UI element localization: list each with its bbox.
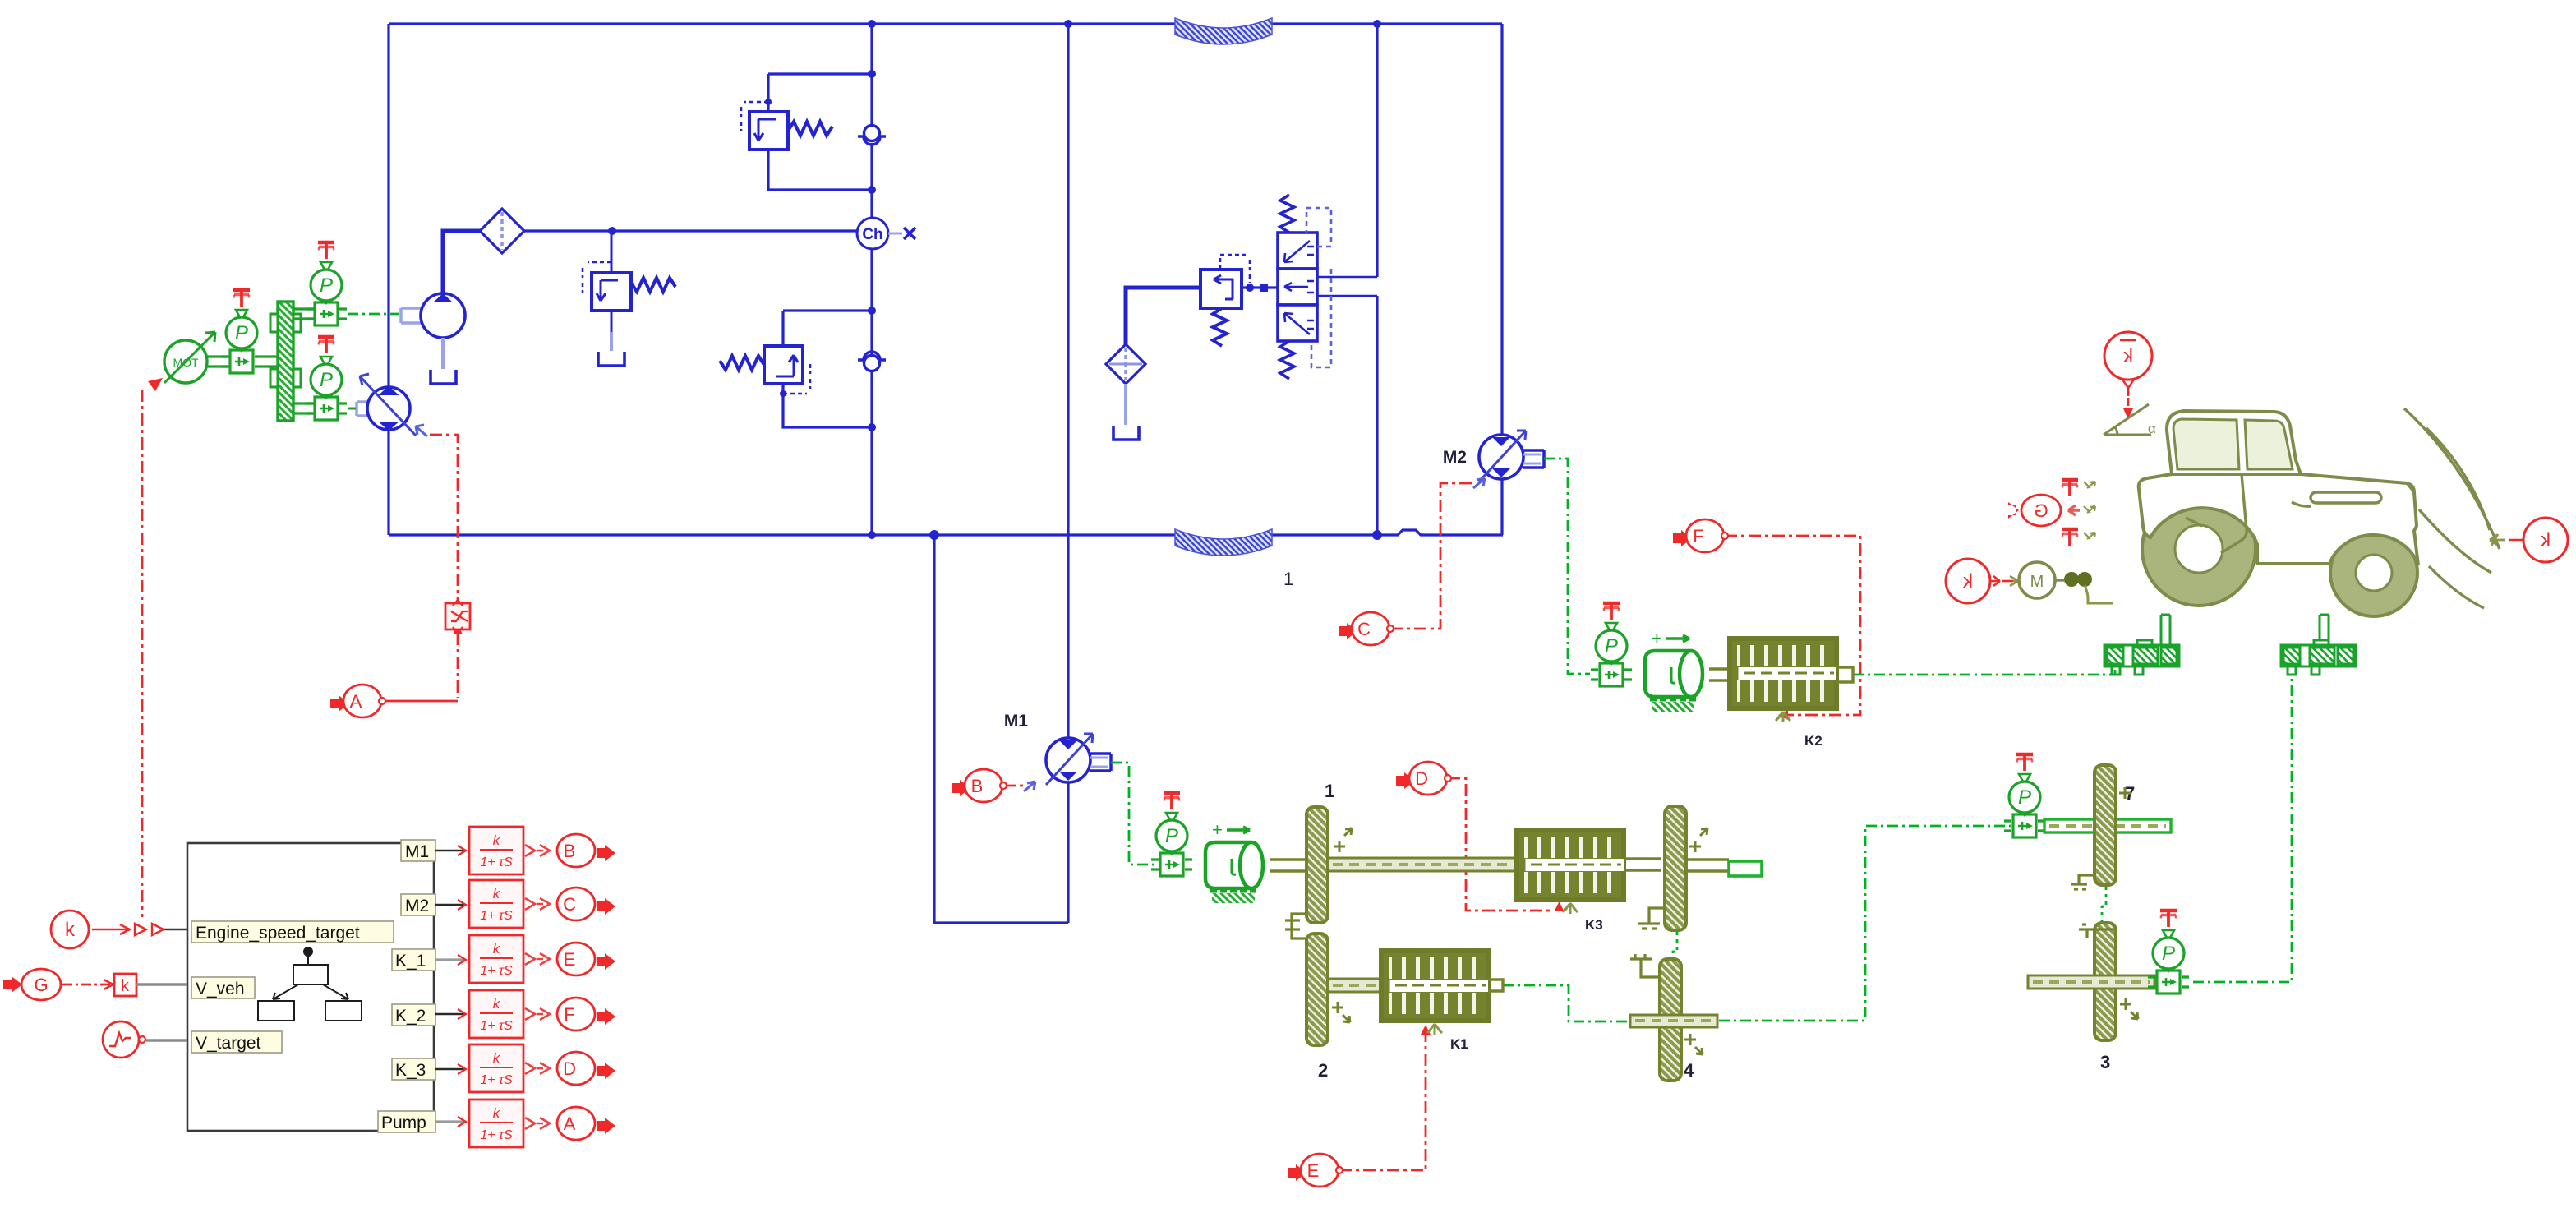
speed node M	[2010, 562, 2113, 603]
wire valve V1 to right verticals	[1317, 276, 1377, 278]
shaft gearbox to lower branch box	[293, 403, 315, 413]
gear 3	[2094, 923, 2116, 1040]
input port labels	[191, 921, 394, 1053]
tractor cab window left	[2173, 419, 2239, 469]
svg-text:k: k	[121, 977, 130, 995]
transfer function TF4 (K_2->F)	[469, 990, 523, 1038]
svg-text:M2: M2	[405, 897, 429, 915]
shaft K1 output stub	[1488, 980, 1503, 991]
wires block outputs to transfer functions	[435, 851, 464, 1069]
wire pump swash command from A	[430, 435, 458, 600]
wire mid vertical x=1300	[1067, 24, 1069, 535]
tractor door edge	[2221, 474, 2247, 553]
wire R2 bottom	[783, 384, 872, 427]
clutch K1	[1381, 951, 1488, 1035]
wire bottom rail left of hose	[389, 533, 1175, 536]
slope angle symbol	[2104, 404, 2151, 435]
hose break bottom	[1175, 529, 1272, 556]
sensor P S2 (pump shaft lower)	[306, 337, 347, 420]
node Ch accumulator	[857, 218, 915, 249]
svg-text:k: k	[65, 919, 76, 941]
engine MOT	[164, 332, 215, 383]
tag F out	[525, 1008, 550, 1020]
svg-text:K2: K2	[1804, 733, 1823, 749]
wire right mid vertical x=1676 upper	[1376, 24, 1378, 277]
svg-text:K_2: K_2	[395, 1007, 426, 1026]
wire tag C to M2	[1390, 483, 1475, 629]
saturation block (pump command)	[445, 600, 470, 633]
shaft MOT to torque box	[207, 357, 230, 367]
ground bracket gear 4 (top)	[1630, 954, 1660, 977]
svg-text:F: F	[564, 1004, 574, 1025]
shaft gearA output stub	[1686, 860, 1729, 871]
gearbox splitter bar	[270, 302, 301, 421]
wire R1 top branch	[768, 72, 872, 75]
svg-text:1+ τS: 1+ τS	[480, 1073, 513, 1087]
svg-text:G: G	[34, 975, 48, 995]
svg-text:M1: M1	[405, 842, 429, 861]
svg-text:A: A	[350, 691, 362, 712]
shaft gear3	[2028, 975, 2154, 989]
svg-text:1+ τS: 1+ τS	[480, 964, 513, 978]
controller block frame	[187, 843, 434, 1131]
tag C out	[525, 898, 550, 910]
inertia I1	[1205, 819, 1263, 903]
wire top rail right of hose	[1272, 22, 1502, 25]
svg-text:Ch: Ch	[862, 226, 882, 243]
svg-text:V_target: V_target	[196, 1034, 261, 1053]
wire mid vertical x=1061 segments	[870, 24, 873, 125]
tractor body shell	[2139, 474, 2418, 565]
source V_target signal generator	[103, 1021, 187, 1058]
wire charge line filter to Ch	[524, 229, 857, 232]
sensor P S7	[2148, 911, 2189, 994]
filter F2 (flushing)	[1106, 344, 1145, 440]
svg-text:2: 2	[1318, 1060, 1328, 1081]
wire elastic link gearA-gear4	[1673, 932, 1677, 958]
tractor cab window right	[2245, 420, 2293, 469]
shaft K2 output	[1836, 667, 1853, 682]
tag D out	[525, 1063, 550, 1074]
source k (engine speed setpoint)	[51, 911, 187, 948]
tractor front wheel	[2330, 529, 2417, 616]
wire top rail left of hose	[389, 22, 1175, 25]
charge pump P2	[401, 293, 465, 369]
svg-text:1+ τS: 1+ τS	[480, 1128, 513, 1142]
tag E out	[525, 953, 550, 965]
sensor P S1 (pump shaft upper)	[306, 242, 347, 325]
svg-text:M1: M1	[1004, 712, 1028, 731]
svg-text:1+ τS: 1+ τS	[480, 909, 513, 923]
svg-text:D: D	[563, 1058, 576, 1079]
svg-text:C: C	[563, 894, 576, 915]
svg-text:M2: M2	[1443, 448, 1467, 467]
transfer function TF2 (M2->C)	[469, 880, 523, 928]
clutch K2	[1730, 639, 1836, 722]
gear 2	[1306, 934, 1328, 1045]
wire G sources to k gain	[62, 984, 112, 986]
svg-text:V_veh: V_veh	[196, 980, 245, 998]
svg-text:4: 4	[1684, 1060, 1694, 1081]
svg-text:1: 1	[1325, 781, 1334, 801]
svg-text:K1: K1	[1450, 1036, 1468, 1052]
check valve C1	[858, 126, 886, 145]
relief valve R1 (top cross relief)	[741, 102, 832, 150]
wire M1 loop	[934, 535, 1068, 923]
right wheel hub	[2281, 615, 2356, 675]
wire K2 output to left hub	[1853, 667, 2115, 675]
tag k (to vehicle speed motor M)	[1946, 559, 2013, 603]
gear A (output of K3)	[1665, 806, 1686, 930]
relief valve R2 (bottom cross relief, mirrored)	[720, 346, 810, 394]
shaft gearbox to upper branch box	[293, 309, 315, 319]
wire bottom rail right of hose, with hop	[1272, 530, 1503, 535]
svg-text:E: E	[1307, 1160, 1320, 1181]
tag E in	[1288, 1164, 1306, 1181]
wire right mid vertical x=1676 lower	[1376, 296, 1378, 535]
svg-text:k: k	[2540, 529, 2551, 551]
wire left vertical below pump P1	[387, 431, 389, 535]
transmitter icons near G	[2062, 480, 2078, 496]
gear 7	[2094, 765, 2116, 885]
shaft K3 to gearA	[1624, 859, 1661, 870]
wire flushing filter to relief R3	[1126, 288, 1200, 348]
inertia I2	[1645, 628, 1703, 712]
tag B out	[525, 845, 550, 856]
tag C in	[1339, 623, 1357, 639]
gear 1	[1306, 807, 1328, 923]
relief valve R0 (charge relief)	[583, 231, 675, 366]
transfer function TF1 (M1->B)	[469, 827, 523, 874]
shaft gear7	[2044, 819, 2171, 832]
tag k (vehicle speed pickup right)	[2490, 518, 2568, 562]
wire charge pump top line	[443, 231, 480, 293]
motion arcs behind tractor	[2404, 408, 2500, 608]
sensor P S6	[2004, 754, 2045, 837]
svg-text:K3: K3	[1585, 917, 1603, 933]
svg-text:M: M	[2030, 573, 2044, 591]
controller internal tree	[258, 947, 362, 1021]
source G (vehicle speed feedback)	[3, 969, 187, 1000]
wire tag D to K3	[1448, 778, 1553, 911]
variable displacement pump P1	[357, 374, 427, 436]
wire K1 output to gear 4 shaft	[1503, 985, 1629, 1021]
svg-text:D: D	[1415, 768, 1428, 789]
wire R2 top branch	[783, 309, 872, 311]
tag A out	[525, 1118, 550, 1129]
low pressure relief valve R3	[1200, 255, 1268, 346]
svg-text:F: F	[1693, 526, 1703, 546]
sensor P S3 (engine shaft)	[221, 290, 262, 373]
motor M2	[1443, 431, 1544, 488]
svg-text:A: A	[564, 1113, 576, 1134]
wire R3 to valve V1	[1242, 286, 1278, 288]
svg-text:3: 3	[2100, 1052, 2110, 1072]
wire inclinometer to slope	[2127, 386, 2130, 399]
svg-text:k: k	[2122, 345, 2133, 367]
svg-text:K_1: K_1	[395, 952, 426, 971]
svg-text:k: k	[1962, 570, 1973, 592]
tractor cab	[2167, 411, 2301, 474]
wire elastic link gear7-gear3	[2102, 887, 2106, 922]
wire M1 to gear train sensor	[1111, 763, 1159, 865]
ground bracket gear 7	[2071, 875, 2093, 889]
left wheel hub	[2104, 615, 2179, 675]
svg-text:C: C	[1357, 619, 1371, 639]
wire tag E to K1	[1339, 1031, 1426, 1170]
svg-text:1+ τS: 1+ τS	[480, 855, 513, 869]
svg-text:G: G	[2034, 500, 2048, 521]
filter F1	[480, 209, 524, 253]
tag A in	[330, 695, 349, 712]
tag B in	[952, 780, 970, 796]
wire gear4 output to gear7 sensor	[1719, 826, 2011, 1021]
wire left vertical above pump P1	[387, 24, 389, 386]
output port labels	[378, 840, 435, 1132]
wire green shaft link S2 to variable pump	[348, 408, 356, 410]
shaft gear1 to K3	[1328, 858, 1518, 871]
wire tag A to saturation	[382, 700, 458, 703]
svg-text:E: E	[564, 949, 576, 970]
receive tags in plant	[330, 519, 1728, 1187]
tractor rear wheel	[2142, 492, 2256, 606]
red arrowheads on signal lines	[148, 378, 2133, 1035]
check valve C2	[858, 352, 886, 371]
svg-text:Engine_speed_target: Engine_speed_target	[196, 924, 360, 943]
wire R1 bottom to mid line	[768, 150, 872, 190]
tag D in	[1396, 772, 1415, 789]
junction dots	[608, 20, 1382, 540]
svg-text:B: B	[971, 776, 984, 796]
inclinometer tag k (top)	[2104, 332, 2152, 408]
ground bracket gearA	[1638, 908, 1663, 929]
shaft I1 to gear1	[1270, 860, 1308, 871]
tag F in	[1673, 530, 1692, 546]
transmit tags B C E F D A	[525, 834, 615, 1140]
tank under charge pump	[431, 370, 456, 384]
svg-text:Pump: Pump	[381, 1113, 426, 1132]
sensor P S4	[1591, 603, 1632, 686]
directional flushing valve V1	[1278, 195, 1331, 379]
ground bracket gear 3 (top)	[2079, 924, 2117, 938]
shaft through gear 4	[1630, 1015, 1717, 1027]
tractor front notch	[2407, 483, 2414, 492]
wire M2 to K2 input sensor	[1544, 459, 1590, 674]
transfer function TF3 (K_1->E)	[469, 935, 523, 983]
hose break top	[1175, 18, 1272, 44]
clutch K3	[1517, 830, 1624, 914]
motor M1	[1004, 712, 1111, 791]
wire tag F to K2	[1725, 536, 1860, 715]
wire tag B to M1	[1003, 785, 1024, 787]
coupling spring gear1-gear2	[1285, 914, 1306, 938]
svg-text:1+ τS: 1+ τS	[480, 1019, 513, 1033]
wire M2 bottom to bottom rail	[1500, 478, 1503, 535]
gear 4	[1660, 959, 1681, 1081]
shaft I2 to K2	[1709, 669, 1731, 680]
tractor side slot	[2311, 492, 2381, 503]
svg-text:α: α	[2148, 421, 2156, 436]
wire gear3 sensor to right hub	[2193, 677, 2292, 982]
transfer function TF6 (Pump->A)	[469, 1100, 523, 1147]
wire green shaft link S1 to charge pump	[348, 313, 399, 316]
wire engine speed command (vertical)	[141, 390, 144, 917]
sensor P S5	[1151, 793, 1192, 876]
transfer function TF5 (K_3->D)	[469, 1044, 523, 1092]
svg-text:K_3: K_3	[395, 1061, 426, 1080]
shaft gear2 to K1	[1328, 979, 1384, 992]
tag G (slope output)	[2008, 495, 2080, 526]
svg-text:B: B	[564, 841, 576, 861]
wire right vertical to M2 top	[1500, 24, 1503, 436]
svg-text:1: 1	[1283, 569, 1293, 589]
